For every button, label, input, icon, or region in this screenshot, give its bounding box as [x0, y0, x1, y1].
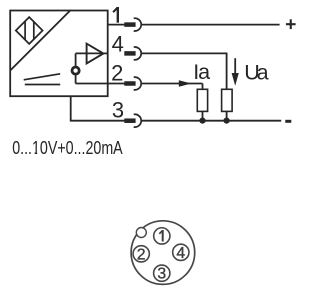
svg-text:a: a — [257, 60, 269, 84]
svg-text:2: 2 — [111, 60, 123, 85]
svg-text:0...10V+0...20mA: 0...10V+0...20mA — [12, 138, 123, 158]
svg-text:3: 3 — [157, 266, 166, 283]
svg-text:4: 4 — [176, 245, 185, 262]
svg-text:a: a — [198, 60, 210, 84]
svg-text:2: 2 — [137, 246, 146, 263]
svg-text:4: 4 — [112, 31, 124, 56]
svg-text:3: 3 — [112, 98, 124, 123]
